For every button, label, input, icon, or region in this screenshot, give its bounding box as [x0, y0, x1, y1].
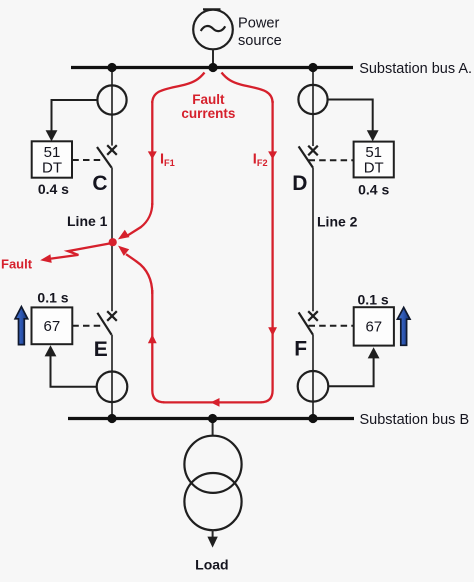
svg-text:Power: Power — [238, 16, 280, 32]
svg-text:0.1 s: 0.1 s — [37, 289, 68, 305]
svg-text:D: D — [292, 172, 307, 195]
svg-text:source: source — [238, 33, 282, 49]
svg-text:67: 67 — [44, 318, 61, 335]
svg-text:51: 51 — [365, 144, 382, 161]
svg-text:67: 67 — [365, 319, 382, 336]
svg-text:Line 1: Line 1 — [67, 213, 108, 229]
svg-text:Fault: Fault — [192, 92, 225, 107]
svg-text:F: F — [294, 337, 307, 360]
svg-text:Load: Load — [195, 556, 228, 572]
svg-text:Substation bus A.: Substation bus A. — [359, 61, 472, 77]
svg-text:C: C — [92, 172, 107, 195]
svg-text:DT: DT — [364, 159, 384, 176]
svg-text:Fault: Fault — [1, 257, 33, 272]
svg-text:0.1 s: 0.1 s — [358, 292, 389, 308]
svg-text:Line 2: Line 2 — [317, 213, 358, 229]
svg-text:currents: currents — [181, 106, 235, 121]
svg-text:E: E — [94, 338, 108, 361]
svg-text:DT: DT — [42, 160, 62, 177]
svg-text:51: 51 — [44, 144, 61, 161]
svg-text:0.4 s: 0.4 s — [38, 181, 69, 197]
svg-text:0.4 s: 0.4 s — [358, 181, 389, 197]
svg-text:Substation bus B: Substation bus B — [360, 412, 470, 428]
